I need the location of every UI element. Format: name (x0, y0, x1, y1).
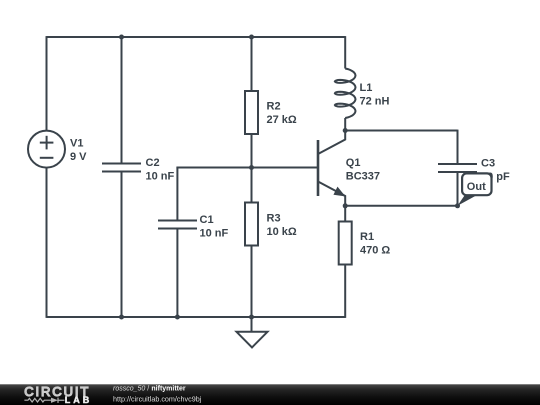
svg-text:27 kΩ: 27 kΩ (267, 114, 297, 126)
svg-text:72 nH: 72 nH (360, 95, 390, 107)
label R1 470 Ohm (360, 231, 390, 257)
wire R3 bottom lead (251, 245, 253, 317)
node dot emitter / R1 (343, 203, 348, 208)
svg-text:C1: C1 (200, 214, 214, 226)
svg-text:C3: C3 (481, 158, 495, 170)
wire L1 top lead (344, 36, 346, 68)
wire middle rail top (to R2) (251, 37, 253, 91)
wire C2 top lead (121, 37, 123, 164)
wire top rail (47, 36, 346, 38)
svg-text:10 nF: 10 nF (200, 228, 229, 240)
svg-text:niftymitter: niftymitter (151, 386, 186, 393)
svg-text:rossco_50: rossco_50 (113, 386, 145, 393)
label R3 10 kOhm (267, 213, 297, 239)
CircuitLab logo resistor-diode glyph (24, 398, 64, 403)
svg-text:/: / (145, 386, 151, 393)
svg-text:Out: Out (467, 181, 486, 193)
CircuitLab logo CIRCUIT (24, 384, 90, 399)
wire R1 top lead (344, 206, 346, 222)
svg-text:Q1: Q1 (346, 157, 361, 169)
svg-text:R3: R3 (267, 213, 281, 225)
capacitor C2 (102, 164, 141, 172)
wire base (junction to Q1 base) (252, 167, 319, 169)
CircuitLab logo LAB (65, 395, 93, 405)
resistor R1 (339, 222, 352, 265)
node dot bottom rail / C1 (175, 315, 180, 320)
svg-text:V1: V1 (70, 138, 83, 150)
svg-text:10 nF: 10 nF (146, 171, 175, 183)
svg-text:9 V: 9 V (70, 151, 87, 163)
wire C1 bottom lead (176, 229, 178, 318)
wire left rail bottom (V1 to bottom rail) (46, 168, 48, 318)
node dot base junction (249, 165, 254, 170)
label C3 10 pF (481, 158, 510, 184)
resistor R2 (245, 91, 258, 134)
svg-text:http://circuitlab.com/chvc9bj: http://circuitlab.com/chvc9bj (113, 394, 202, 403)
wire left rail top (V1 to top rail) (46, 36, 48, 131)
wire C1 top lead (176, 168, 178, 221)
wire collector node to C3 (horizontal) (345, 130, 457, 132)
wire L1 bottom lead (344, 118, 346, 131)
ground (237, 317, 268, 347)
wire R2 to base junction and R3 top lead (251, 134, 253, 203)
wire emitter node to C3 bottom node (horizontal) (345, 205, 457, 207)
wire bottom rail (47, 316, 346, 318)
svg-text:R1: R1 (360, 231, 374, 243)
label C2 10 nF (146, 157, 175, 183)
svg-text:R2: R2 (267, 101, 281, 113)
node dot C3 bottom / Out (455, 203, 460, 208)
label L1 72 nH (360, 82, 390, 108)
wire C2 bottom lead (121, 172, 123, 318)
output flag Out (458, 173, 492, 205)
wire C3 top lead (457, 130, 459, 164)
label Q1 BC337 (346, 157, 380, 183)
node dot top rail / C2 (119, 35, 124, 40)
label C1 10 nF (200, 214, 229, 240)
resistor R3 (245, 203, 258, 246)
wire R1 bottom lead (344, 265, 346, 318)
footer url (113, 394, 202, 403)
footer bar (0, 384, 540, 405)
node dot collector / L1 (343, 128, 348, 133)
node dot top rail / R2 (249, 35, 254, 40)
capacitor C1 (158, 221, 197, 229)
wire C3 bottom lead (457, 172, 459, 206)
label V1 9 V (70, 138, 87, 164)
label R2 27 kOhm (267, 101, 297, 127)
node dot bottom rail / ground (249, 315, 254, 320)
svg-text:L1: L1 (360, 82, 373, 94)
svg-text:C2: C2 (146, 157, 160, 169)
svg-text:LAB: LAB (65, 395, 93, 405)
footer username and title (113, 386, 186, 393)
svg-text:470 Ω: 470 Ω (360, 245, 390, 257)
svg-text:BC337: BC337 (346, 171, 380, 183)
wire C1 top horizontal to base wire (177, 167, 251, 170)
node dot bottom rail / C2 (119, 315, 124, 320)
capacitor C3 (438, 164, 477, 172)
inductor L1 (335, 69, 356, 119)
voltage source V1 (28, 131, 65, 168)
svg-text:10 kΩ: 10 kΩ (267, 226, 297, 238)
transistor Q1 (318, 131, 345, 206)
